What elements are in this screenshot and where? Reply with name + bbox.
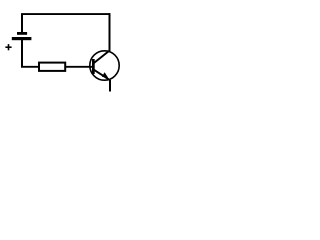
wire: battery top terminal up to top rail [21, 14, 23, 33]
transistor Q1 body circle [90, 51, 119, 80]
wire: battery bottom terminal down to bottom rail [21, 40, 23, 68]
battery B1 plus label [5, 44, 11, 50]
battery B1 negative plate (short, top) [17, 32, 27, 35]
transistor Q1 base bar [92, 59, 95, 74]
wire: collector drop from top rail [109, 13, 111, 51]
resistor R1 [39, 63, 65, 71]
battery B1 positive plate (long, bottom) [12, 37, 32, 40]
transistor Q1 emitter diagonal [94, 70, 111, 81]
transistor Q1 collector diagonal [94, 50, 110, 63]
wire: top rail horizontal [21, 13, 110, 15]
wire: emitter lead below circle [109, 80, 111, 92]
transistor Q1 emitter arrowhead [102, 72, 108, 78]
wire: resistor right lead to transistor base [66, 66, 93, 68]
wire: bottom rail to resistor left lead [21, 66, 39, 68]
